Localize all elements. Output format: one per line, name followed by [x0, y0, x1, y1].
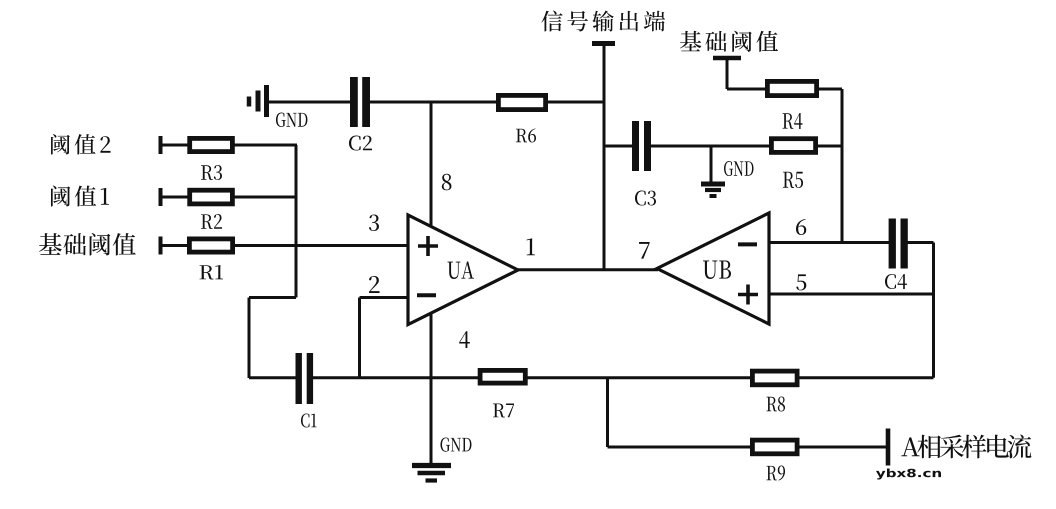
label R5 [783, 172, 803, 188]
node: input terminal 阈值2 [161, 136, 189, 154]
wire UB pin 5 row [769, 293, 934, 296]
label 阈值2 [51, 134, 110, 154]
label R4 [783, 113, 803, 129]
label C4 [885, 274, 907, 289]
pin 5 [796, 274, 806, 290]
pin 7 [639, 242, 650, 259]
label 基础阈值 (left) [39, 233, 136, 256]
pin 8 [442, 174, 452, 191]
wire top row from ground through C2 to output node [268, 101, 604, 104]
pin 4 [459, 331, 470, 348]
capacitor C3 [636, 121, 648, 171]
label R1 [199, 265, 223, 280]
wire R4 to rail [818, 88, 842, 91]
capacitor C2 [354, 77, 366, 127]
label A相采样电流 [901, 434, 1031, 458]
label R7 [493, 404, 514, 418]
pin 1 [527, 238, 535, 255]
label R8 [766, 396, 785, 411]
pin 2 [369, 276, 380, 293]
resistor R4 [767, 81, 816, 95]
wire UB pin 6 row through C4 [769, 241, 934, 244]
node: 基础阈值 input terminal (top right) [713, 58, 766, 89]
pin 3 [369, 215, 379, 231]
label R3 [201, 165, 222, 180]
resistor R2 [190, 190, 233, 204]
label C3 [635, 191, 656, 206]
op-amp UA [408, 215, 518, 325]
label C1 [301, 414, 317, 428]
wire R3 to junction [234, 144, 297, 147]
pin 6 [796, 219, 806, 235]
wire UA output (pin 1) to UB (pin 7) [518, 268, 658, 271]
label 基础阈值 (top right) [680, 31, 778, 52]
label R2 [201, 214, 222, 229]
wire drop from bottom row to R9 row [608, 378, 887, 447]
node: signal output terminal 信号输出端 [592, 44, 615, 271]
label UA [447, 261, 473, 279]
resistor R8 [752, 371, 797, 385]
capacitor C1 [299, 353, 310, 404]
resistor R1 [189, 239, 232, 252]
wire C3 row [604, 145, 842, 148]
node: A相采样电流 terminal [886, 429, 891, 466]
label UB [703, 261, 731, 280]
wire R2 to junction [234, 196, 297, 199]
capacitor C4 [892, 219, 904, 269]
resistor R3 [190, 138, 233, 151]
wire UA pin 2 (-) branch [360, 298, 409, 378]
label 信号输出端 [541, 11, 665, 32]
wire right rail down to bottom row [932, 243, 935, 378]
wire UA pin 8 vertical [430, 102, 433, 227]
ground GND top-left (sideways) [249, 85, 267, 117]
label C2 [349, 136, 372, 151]
wire bottom row (C1 / R7 / R8) [249, 376, 934, 379]
resistor R6 [498, 95, 545, 109]
op-amp UB [657, 213, 769, 324]
resistor R9 [752, 440, 797, 454]
label GND (bottom) [440, 438, 471, 452]
label 阈值1 [51, 186, 109, 207]
wire junction vertical joining R3,R2 rows [295, 145, 298, 298]
watermark ybx8.cn [876, 469, 941, 480]
ground GND mid (below C3 row) [701, 146, 725, 196]
wire UA pin 4 vertical down to ground [430, 314, 433, 463]
resistor R7 [480, 370, 525, 383]
label GND (mid) [724, 161, 753, 176]
node: input terminal 阈值1 [161, 188, 189, 206]
wire R1 to UA pin 3 (+) [234, 244, 408, 247]
node: input terminal 基础阈值 (left) [161, 237, 189, 255]
label GND (top left) [276, 113, 307, 128]
resistor R5 [771, 139, 815, 153]
ground GND bottom (UA pin 4) [412, 466, 451, 481]
label R6 [516, 128, 536, 142]
label R9 [766, 466, 785, 481]
wire jog left down to C1 branch [249, 298, 296, 379]
wire rail from R4 down to UB pin 6 [841, 89, 844, 243]
